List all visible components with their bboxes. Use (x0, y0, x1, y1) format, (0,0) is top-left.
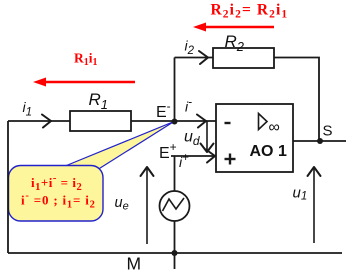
wire: R1 to op-amp minus input (131, 120, 216, 122)
node S (317, 138, 323, 144)
ground rail M (8, 252, 342, 254)
wire: E+ to op-amp plus input (171, 155, 216, 157)
current arrow i2 (199, 51, 208, 64)
voltage arrow u1 (308, 167, 321, 243)
svg-text:M: M (127, 254, 142, 274)
svg-text:AO 1: AO 1 (250, 143, 287, 160)
svg-text:∞: ∞ (269, 119, 280, 136)
resistor R2 (213, 48, 274, 68)
source waveform symbol (163, 198, 185, 211)
red arrow for R2i2 (pointing left) (193, 23, 274, 32)
wire: left rail (7, 121, 9, 253)
node M (172, 250, 178, 256)
wire: E+ down to source (174, 156, 176, 191)
wire: op-amp output (293, 140, 346, 142)
op-amp minus sign (225, 122, 231, 124)
wire: E- up to feedback branch (174, 58, 176, 122)
red arrow for R1i1 (pointing left) (33, 78, 135, 87)
wire: source down to ground rail (174, 221, 176, 253)
node E- (172, 119, 178, 125)
current arrow i+ (206, 150, 215, 163)
op-amp gain triangle (259, 114, 268, 130)
current arrow i- (197, 115, 206, 128)
svg-text:R2i2= R2i1: R2i2= R2i1 (211, 2, 289, 21)
voltage arrow ud (201, 121, 214, 152)
callout pointer to node E- (64, 122, 174, 171)
svg-text:S: S (323, 123, 333, 140)
voltage arrow ue (141, 167, 154, 244)
source generator circle (160, 191, 190, 221)
op-amp plus sign (225, 154, 236, 165)
wire: stub below M node (174, 253, 176, 269)
resistor R1 (70, 111, 131, 131)
op-amp AO1 body (216, 104, 293, 172)
wire: feedback into R2 (175, 57, 214, 59)
callout bubble (9, 166, 104, 222)
current arrow i1 (42, 115, 51, 128)
wire: input to R1 (8, 120, 70, 122)
wire: R2 to output rail (274, 58, 319, 142)
